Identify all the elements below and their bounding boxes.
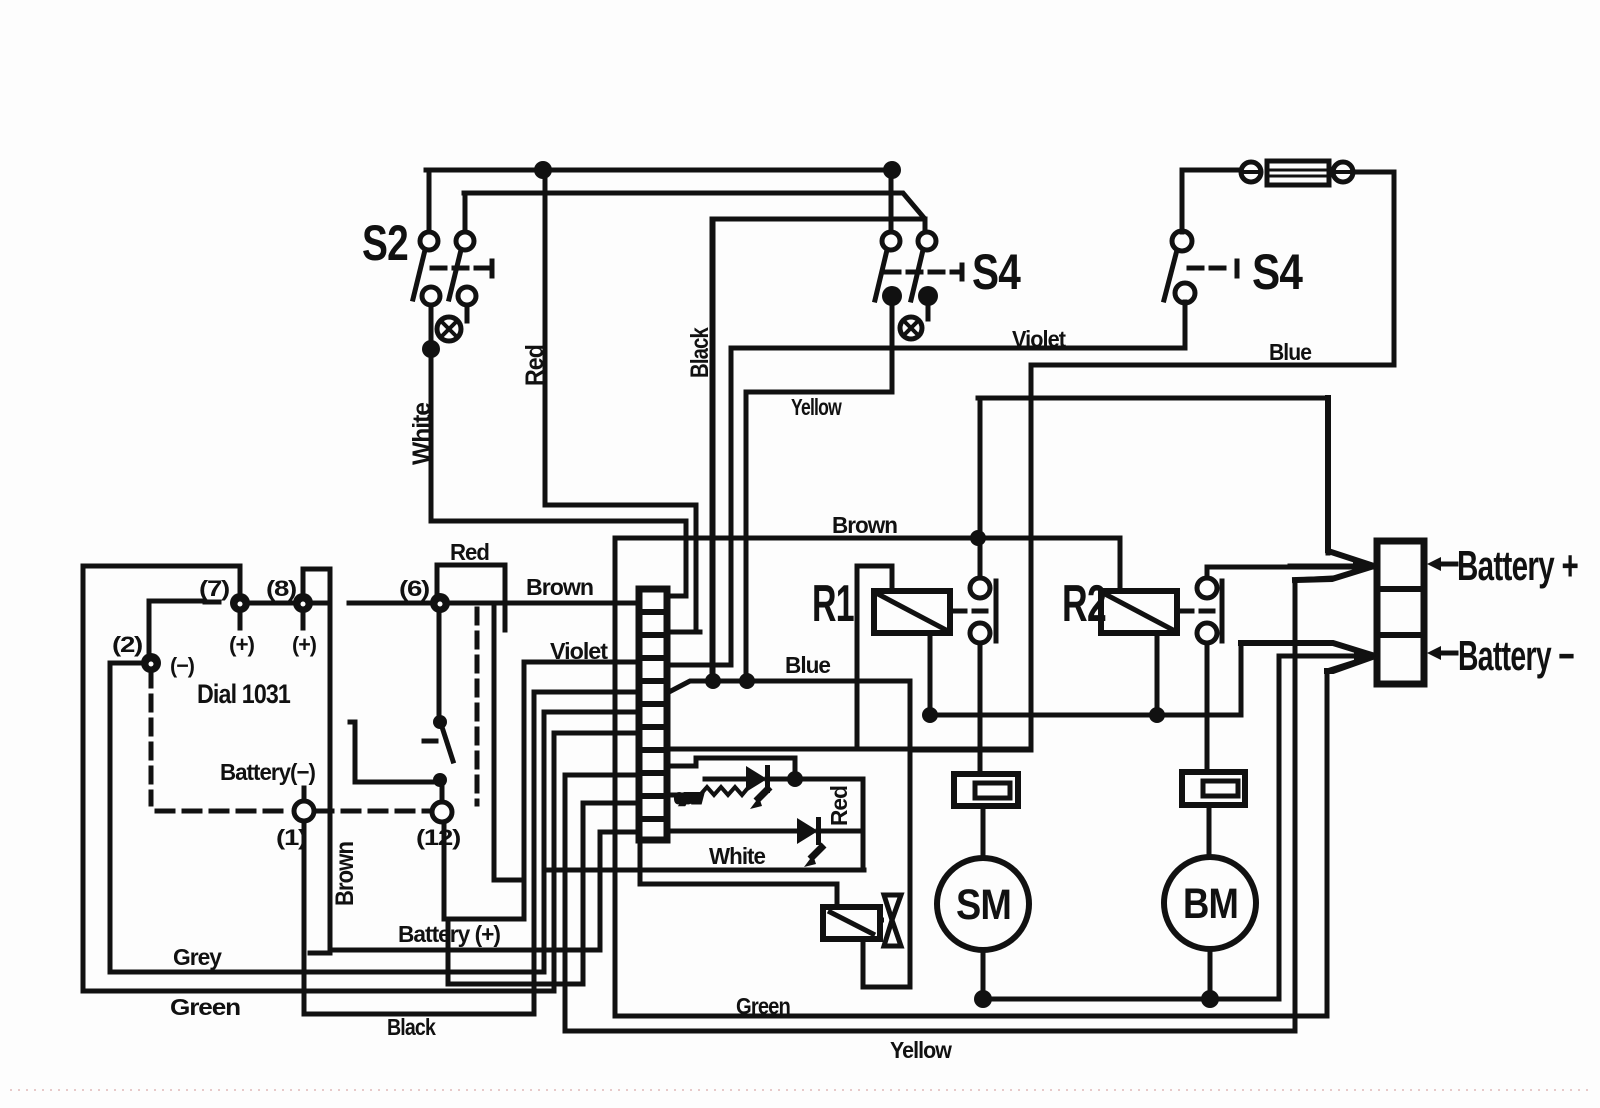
svg-text:Black: Black: [387, 1014, 436, 1040]
svg-text:White: White: [408, 402, 436, 465]
svg-text:Red: Red: [826, 786, 852, 826]
svg-text:Blue: Blue: [1269, 339, 1311, 365]
svg-text:Brown: Brown: [832, 512, 897, 538]
svg-text:(+): (+): [229, 632, 255, 657]
svg-text:S2: S2: [362, 215, 408, 271]
svg-text:White: White: [709, 843, 765, 869]
svg-text:Battery +: Battery +: [1457, 542, 1578, 589]
svg-text:S4: S4: [972, 244, 1021, 300]
svg-text:BM: BM: [1183, 880, 1238, 928]
svg-text:(2): (2): [112, 632, 143, 657]
svg-text:R2: R2: [1062, 575, 1106, 633]
svg-text:SM: SM: [956, 881, 1011, 929]
svg-text:S4: S4: [1252, 244, 1303, 300]
svg-text:(8): (8): [266, 576, 297, 601]
svg-text:Red: Red: [521, 345, 549, 386]
svg-text:Battery −: Battery −: [1458, 632, 1574, 679]
svg-text:(+): (+): [292, 632, 317, 657]
svg-text:Brown: Brown: [526, 574, 593, 600]
svg-text:Battery (+): Battery (+): [398, 921, 500, 947]
svg-text:Violet: Violet: [550, 638, 608, 664]
svg-text:Blue: Blue: [785, 652, 830, 678]
svg-text:Red: Red: [450, 539, 489, 565]
svg-text:(12): (12): [416, 825, 461, 850]
svg-text:Black: Black: [686, 327, 714, 378]
svg-text:(7): (7): [199, 576, 230, 601]
svg-text:Battery(−): Battery(−): [220, 759, 315, 785]
svg-text:Brown: Brown: [331, 842, 359, 906]
svg-text:Green: Green: [736, 993, 790, 1019]
svg-text:Grey: Grey: [173, 944, 222, 970]
svg-text:R1: R1: [812, 575, 854, 633]
svg-text:(1): (1): [276, 825, 307, 850]
svg-text:Violet: Violet: [1012, 326, 1066, 352]
svg-text:Yellow: Yellow: [890, 1037, 952, 1063]
svg-text:(−): (−): [170, 653, 195, 678]
svg-text:(6): (6): [399, 576, 430, 601]
svg-text:Yellow: Yellow: [791, 394, 842, 420]
svg-text:Dial 1031: Dial 1031: [197, 679, 291, 709]
svg-text:Green: Green: [170, 994, 240, 1020]
